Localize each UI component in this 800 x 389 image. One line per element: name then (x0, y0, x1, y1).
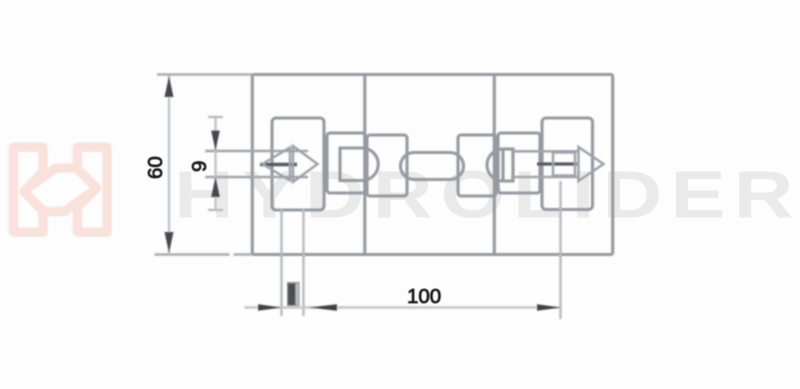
dimension 9 end tick bottom (208, 209, 223, 211)
left block arrow outward (263, 148, 291, 181)
logo hydrolider left glyph (13, 147, 89, 232)
small 3d marker box (287, 282, 300, 306)
svg-text:9: 9 (188, 161, 211, 172)
left block arrow inward (293, 146, 318, 182)
dimension 9 arrow up (211, 177, 220, 197)
box 1 right of divider 1 (367, 135, 407, 196)
box 2 left of divider 2 (458, 135, 496, 196)
logo hydrolider right glyph (31, 147, 107, 232)
mounting hole extension line right (559, 181, 561, 319)
dimension 60 extension bottom (155, 253, 230, 255)
dimension 100 arrow at left pair (258, 304, 282, 311)
svg-text:100: 100 (407, 285, 441, 308)
D-port right mirrored (503, 149, 513, 181)
dimension 100 line (245, 306, 562, 309)
square A left of divider 1 (327, 133, 365, 193)
left block spool lines (205, 151, 308, 177)
dimension 9 line (214, 116, 216, 211)
mounting hole extension line left a (280, 209, 282, 316)
svg-text:60: 60 (144, 156, 167, 179)
dimension 100 arrow right (537, 304, 561, 311)
mounting hole extension line left b (302, 209, 304, 316)
right block socket rect (553, 153, 575, 176)
dimension 60 line (168, 76, 170, 253)
right block arrow outward (579, 147, 604, 181)
section divider 2 (493, 75, 496, 255)
right block center dark line (537, 162, 577, 165)
outer body rectangle (252, 75, 612, 255)
section divider 1 (363, 75, 366, 255)
D-port left (340, 148, 378, 181)
right block spool lines (511, 151, 578, 177)
dimension 9 end tick top (208, 116, 223, 118)
right end block (542, 118, 593, 210)
dimension 60 arrow down (165, 232, 174, 253)
dimension 60 extension top (157, 73, 252, 75)
watermark text HYDROLIDER (174, 157, 800, 232)
left block center dark line (260, 163, 297, 166)
square C right of divider 2 (498, 133, 540, 193)
dimension 100 arrow middle (309, 304, 337, 311)
left end block (272, 118, 324, 210)
main drawing outline (252, 75, 612, 255)
capsule slot center (401, 153, 464, 180)
dimension 60 arrow up (165, 76, 174, 97)
dimension 9 arrow down (211, 131, 220, 151)
